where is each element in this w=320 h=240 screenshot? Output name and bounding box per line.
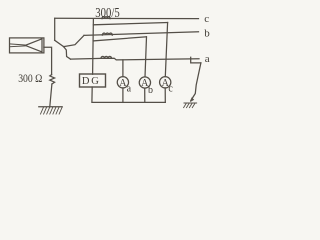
wire: dropper to ammeter b [145,37,147,77]
CT1 coil (300/5) humps [102,17,110,19]
wire: resistor to ground [50,84,52,107]
wire: junction up-left to top line corner [55,40,64,46]
svg-text:300 Ω: 300 Ω [18,73,42,85]
ammeter A-c circle [160,77,171,88]
wire: tap from generator to resistor [44,47,52,74]
svg-text:b: b [204,27,210,39]
wire: ammeter a bottom lead [122,88,124,103]
CT2 coil humps [102,33,112,35]
wire: secondary bus vertical [92,19,95,75]
wire: phase a line to terminal a [71,58,200,60]
wire: dropper to ammeter c [165,23,167,77]
CT1 secondary loop [93,23,167,25]
svg-text:a: a [127,84,132,95]
wire: junction down to phase-a line [64,47,71,60]
relay DG box [80,74,106,87]
ground (right) [184,102,197,104]
wire: top-left vertical riser [54,18,56,40]
ground (left) [39,106,62,108]
CT2 secondary loop [93,37,146,41]
svg-text:300/5: 300/5 [95,5,120,20]
svg-text:c: c [204,13,209,25]
wire: phase c line (top) to terminal c [55,17,199,19]
earthing arrowhead [190,97,194,102]
generator symbol triangle [25,39,42,52]
wire: DG bottom lead and return bus [92,87,165,102]
wire: junction to phase-b line [64,35,84,46]
earthing arrow: tick and bar [191,57,201,63]
generator / cable-end symbol body [10,38,44,53]
wire: phase b line to terminal b [84,32,199,36]
generator symbol lead lines [10,44,26,47]
wire: ammeter b bottom lead [144,88,146,102]
resistor R (300 ohm) zigzag [50,75,55,84]
svg-text:c: c [168,83,173,94]
wire: ammeter c bottom lead [164,88,166,103]
svg-text:b: b [148,85,153,96]
ammeter A-a circle [117,77,128,88]
CT3 coil humps [101,56,112,58]
earthing arrow blade [191,63,201,101]
wire: dropper to ammeter a [122,60,124,77]
ammeter A-b circle [139,77,150,88]
svg-text:DG: DG [82,76,101,87]
svg-text:a: a [205,53,210,65]
